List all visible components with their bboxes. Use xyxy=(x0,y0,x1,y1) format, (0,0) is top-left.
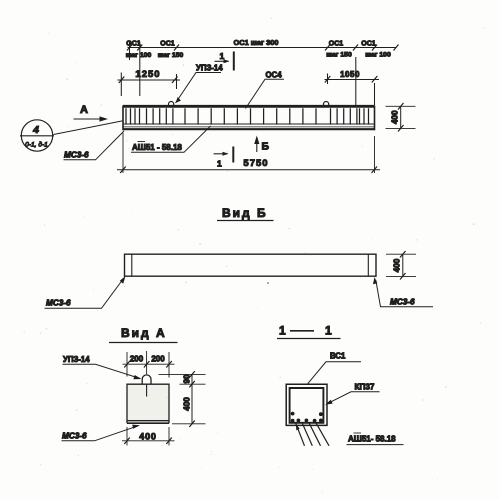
title 1 — 1 xyxy=(277,324,341,339)
svg-text:90: 90 xyxy=(183,374,192,383)
svg-text:АШ51- 58.18: АШ51- 58.18 xyxy=(348,435,396,444)
svg-text:шаг 100: шаг 100 xyxy=(126,52,152,59)
arrowhead on leftmost bar xyxy=(296,424,300,431)
svg-text:1050: 1050 xyxy=(340,70,360,79)
label УПЗ-14 (Вид А) with leader xyxy=(63,355,142,379)
svg-text:шаг 150: шаг 150 xyxy=(326,52,352,59)
svg-text:1: 1 xyxy=(325,324,332,338)
svg-text:ОС1: ОС1 xyxy=(160,41,175,48)
svg-text:1250: 1250 xyxy=(135,69,160,80)
dimension 5750 xyxy=(117,133,380,173)
label ОС4 with leader xyxy=(246,71,285,109)
title Вид А xyxy=(109,326,178,343)
svg-text:400: 400 xyxy=(139,431,156,441)
extension line left 2 xyxy=(139,42,141,97)
lifting loop УПЗ-14 (end view) xyxy=(142,375,151,397)
stirrups ОС1 xyxy=(126,108,369,124)
section 1-1 stirrup КП37 (inner square) xyxy=(290,388,324,423)
title Вид Б xyxy=(217,206,274,221)
label МС3-6 (Вид А) with leader xyxy=(62,425,141,441)
svg-text:400: 400 xyxy=(393,258,402,272)
extension line left 4 xyxy=(176,74,178,89)
detail mark circle 4 / 0-1,д-1 xyxy=(20,120,123,151)
label МС3-6 (side view, left) with leader xyxy=(45,276,126,308)
svg-text:400: 400 xyxy=(183,397,192,411)
svg-text:КП37: КП37 xyxy=(355,383,375,392)
lifting loop УПЗ-14 right (elevation) xyxy=(324,101,329,106)
dimension 400 (Вид А width) xyxy=(122,427,175,446)
speck on side view xyxy=(267,282,269,284)
svg-text:1: 1 xyxy=(217,159,222,169)
svg-text:ОС4: ОС4 xyxy=(266,71,283,80)
dimension 400 (side view height) xyxy=(386,251,416,280)
svg-text:ОС1: ОС1 xyxy=(361,41,376,48)
svg-text:200: 200 xyxy=(130,355,144,364)
lifting loop УПЗ-14 left (elevation) xyxy=(169,102,174,107)
label МС3-6 (side view, right) with leader xyxy=(373,277,433,307)
svg-text:Б: Б xyxy=(262,141,270,153)
section mark 1 (top) xyxy=(215,51,234,71)
section 1-1 outer square xyxy=(286,384,327,425)
extension line right zone 150 xyxy=(355,57,357,105)
view arrow А xyxy=(74,104,109,122)
label АШ51-58.18 (section) xyxy=(347,433,404,445)
dimension 1050 (right) xyxy=(325,70,380,83)
beam side view (Вид Б) body xyxy=(125,254,377,277)
svg-text:шаг 100: шаг 100 xyxy=(365,52,391,59)
protruding bars АШ51-58.18 xyxy=(296,423,329,446)
svg-text:5750: 5750 xyxy=(243,158,268,169)
extension line right beam end xyxy=(374,83,376,105)
svg-text:200: 200 xyxy=(151,355,165,364)
extension line left 3 xyxy=(120,73,122,97)
svg-text:ВС1: ВС1 xyxy=(330,352,346,361)
svg-text:МС3-6: МС3-6 xyxy=(46,299,71,308)
svg-text:0-1, д-1: 0-1, д-1 xyxy=(25,141,48,149)
label УПЗ-14 with leader xyxy=(176,64,224,104)
svg-text:4: 4 xyxy=(32,124,39,136)
label КП37 with leader xyxy=(325,383,380,405)
zone boundary ticks on top line xyxy=(127,45,399,51)
dimension 400 (Вид А height) xyxy=(172,384,206,427)
beam elevation body xyxy=(123,106,375,131)
rebar dots xyxy=(291,412,323,423)
label ВС1 with leader xyxy=(308,352,361,384)
extension line right 1050 start xyxy=(327,74,329,85)
label МС3-6 (elevation, left) with leader xyxy=(64,131,125,160)
svg-text:МС3-6: МС3-6 xyxy=(390,298,415,307)
svg-text:УПЗ-14: УПЗ-14 xyxy=(196,64,223,73)
svg-text:А: А xyxy=(80,104,88,116)
svg-text:1: 1 xyxy=(279,324,286,338)
view arrow Б xyxy=(254,136,269,153)
svg-text:400: 400 xyxy=(391,110,400,124)
svg-text:Вид Б: Вид Б xyxy=(222,206,268,220)
end view square (Вид А) xyxy=(127,384,169,423)
svg-text:ОС1 шаг 300: ОС1 шаг 300 xyxy=(234,38,279,47)
top dimension line (spacing zones) xyxy=(128,47,397,49)
svg-text:шаг 150: шаг 150 xyxy=(158,52,184,59)
section mark 1 (bottom) xyxy=(214,147,234,169)
extension line left 1 xyxy=(129,42,131,61)
svg-text:ОС1: ОС1 xyxy=(126,41,141,48)
dimension 400 (elevation height) xyxy=(386,103,416,132)
svg-text:АШ51 - 58.18: АШ51 - 58.18 xyxy=(132,143,182,152)
svg-text:МС3-6: МС3-6 xyxy=(62,432,87,441)
svg-text:УПЗ-14: УПЗ-14 xyxy=(63,355,90,364)
dimension 90 (loop height) xyxy=(159,371,206,387)
dimension 1250 (left) xyxy=(118,69,181,83)
svg-text:МС3-6: МС3-6 xyxy=(64,151,89,160)
dimension 200/200 (top of Вид А) xyxy=(123,351,175,378)
svg-text:Вид А: Вид А xyxy=(121,326,167,340)
label АШ51-58.18 (elevation) with leader xyxy=(131,126,211,152)
svg-text:ОС1: ОС1 xyxy=(329,41,344,48)
